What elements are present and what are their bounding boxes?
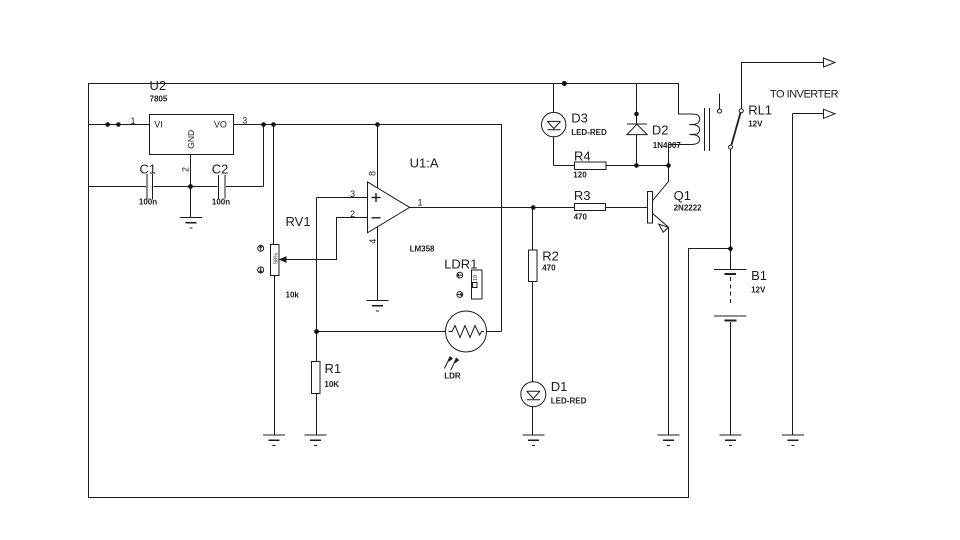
svg-text:C1: C1 <box>140 162 157 177</box>
svg-text:LDR: LDR <box>444 372 461 381</box>
svg-text:100n: 100n <box>139 198 157 207</box>
svg-text:D3: D3 <box>571 111 588 126</box>
svg-text:470: 470 <box>574 213 588 222</box>
svg-text:7805: 7805 <box>150 95 168 104</box>
svg-text:LDR1: LDR1 <box>444 257 477 272</box>
svg-text:RL1: RL1 <box>748 103 772 118</box>
svg-text:LED-RED: LED-RED <box>571 128 607 137</box>
svg-text:1: 1 <box>130 116 135 126</box>
svg-text:R4: R4 <box>574 148 591 163</box>
svg-text:C2: C2 <box>212 162 229 177</box>
svg-text:100n: 100n <box>212 198 230 207</box>
svg-text:U1:A: U1:A <box>410 156 439 171</box>
svg-text:B1: B1 <box>751 268 767 283</box>
svg-text:12V: 12V <box>751 286 766 295</box>
svg-text:4: 4 <box>368 239 378 244</box>
svg-text:10k: 10k <box>286 291 300 300</box>
svg-text:2N2222: 2N2222 <box>674 204 703 213</box>
svg-text:TO INVERTER: TO INVERTER <box>770 89 839 101</box>
svg-text:RV1: RV1 <box>286 214 311 229</box>
svg-text:GND: GND <box>186 130 196 149</box>
svg-text:1N4007: 1N4007 <box>653 141 682 150</box>
svg-text:10K: 10K <box>324 380 339 389</box>
svg-text:12V: 12V <box>748 120 763 129</box>
svg-text:D1: D1 <box>551 379 568 394</box>
svg-text:Q1: Q1 <box>674 188 691 203</box>
svg-text:VI: VI <box>154 120 163 130</box>
svg-text:1: 1 <box>418 198 423 208</box>
svg-text:50%: 50% <box>274 253 280 264</box>
svg-text:3: 3 <box>242 116 247 126</box>
svg-text:8: 8 <box>367 171 377 176</box>
svg-text:U2: U2 <box>150 78 167 93</box>
svg-text:R2: R2 <box>542 249 559 264</box>
svg-text:R1: R1 <box>325 361 342 376</box>
svg-text:2: 2 <box>181 167 191 172</box>
svg-text:VO: VO <box>214 120 227 130</box>
svg-text:R3: R3 <box>574 188 591 203</box>
svg-text:120: 120 <box>573 171 587 180</box>
svg-text:3: 3 <box>350 189 355 199</box>
svg-text:470: 470 <box>542 264 556 273</box>
svg-text:D2: D2 <box>652 123 669 138</box>
svg-text:LED-RED: LED-RED <box>551 396 587 405</box>
svg-text:2: 2 <box>350 209 355 219</box>
svg-text:10: 10 <box>473 275 479 281</box>
svg-text:LM358: LM358 <box>410 245 435 254</box>
